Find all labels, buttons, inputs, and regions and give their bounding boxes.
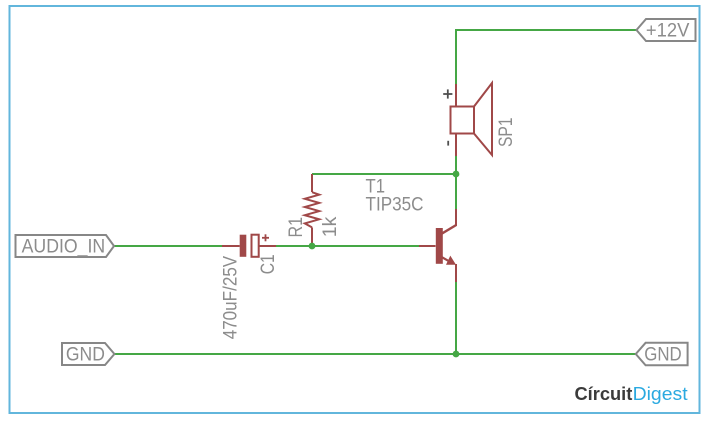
speaker pin + label — [443, 89, 452, 98]
speaker SP1 — [451, 83, 493, 156]
svg-text:470uF/25V: 470uF/25V — [221, 256, 242, 340]
svg-text:Digest: Digest — [633, 384, 688, 404]
svg-text:GND: GND — [66, 344, 105, 365]
wire net +12V horizontal — [456, 29, 637, 31]
svg-text:AUDIO_IN: AUDIO_IN — [22, 237, 106, 258]
wire horizontal collector net — [312, 173, 456, 175]
svg-text:SP1: SP1 — [496, 118, 517, 148]
svg-text:TIP35C: TIP35C — [366, 195, 424, 216]
capacitor + mark — [262, 234, 269, 241]
wire net +12V vertical to speaker — [455, 29, 457, 84]
wire emitter down — [455, 282, 457, 354]
svg-text:1k: 1k — [320, 216, 341, 237]
flag GND left — [62, 343, 114, 365]
svg-text:R1: R1 — [286, 217, 307, 238]
resistor R1 — [305, 174, 319, 246]
wire C1 to transistor base — [276, 245, 419, 247]
wire AUDIO_IN flag to C1 — [114, 245, 222, 247]
flag GND right — [636, 343, 688, 366]
svg-text:Círcuit: Círcuit — [575, 384, 633, 404]
node junction dot base net — [309, 243, 316, 250]
wire junction to collector — [455, 174, 457, 209]
svg-text:GND: GND — [644, 344, 682, 365]
svg-text:+12V: +12V — [646, 20, 690, 41]
transistor T1 — [419, 209, 456, 282]
flag AUDIO_IN — [16, 235, 115, 258]
node junction dot ground net — [453, 351, 460, 358]
capacitor C1 — [222, 235, 276, 257]
speaker pin - label — [447, 141, 449, 146]
wire ground net — [115, 353, 637, 355]
flag +12V — [637, 19, 696, 41]
wire speaker to junction — [455, 156, 457, 176]
node junction dot collector net — [453, 171, 460, 178]
svg-text:C1: C1 — [258, 254, 279, 274]
